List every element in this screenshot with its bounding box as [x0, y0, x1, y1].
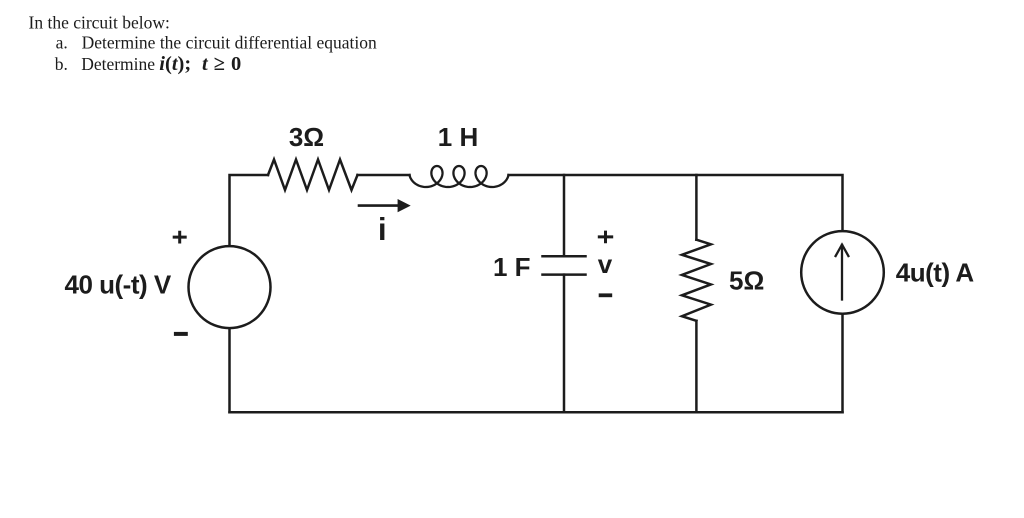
svg-text:a.Determine the circuit differ: a.Determine the circuit differential equ…: [56, 33, 377, 53]
capacitor branch top wire: [563, 175, 566, 256]
svg-text:i: i: [378, 211, 387, 247]
capacitor branch bottom wire: [563, 275, 566, 413]
svg-text:40 u(-t) V: 40 u(-t) V: [65, 270, 172, 300]
svg-text:b.Determinei(t);t≥0: b.Determinei(t);t≥0: [55, 53, 241, 75]
voltage source V1 circle: [189, 246, 271, 328]
current source arrow head chevron: [836, 245, 849, 256]
5ohm branch top wire: [695, 175, 698, 240]
capacitor C1 bottom plate: [543, 273, 586, 276]
svg-text:1 F: 1 F: [493, 252, 531, 282]
wire inductor to top-right corner and down to current source: [509, 175, 843, 230]
current source I1 circle: [801, 231, 884, 314]
svg-text:4u(t) A: 4u(t) A: [896, 257, 975, 287]
wire voltage source bottom to bottom rail: [228, 329, 231, 412]
svg-text:v: v: [598, 249, 613, 279]
svg-text:1 H: 1 H: [438, 122, 478, 152]
wire current source bottom to bottom rail: [841, 315, 844, 413]
minus sign of capacitor: [601, 293, 611, 297]
current direction arrow head: [398, 199, 411, 212]
plus sign of voltage source: [174, 232, 185, 242]
svg-text:5Ω: 5Ω: [729, 266, 764, 296]
bottom rail wire: [230, 411, 843, 414]
svg-text:3Ω: 3Ω: [289, 122, 324, 152]
current direction arrow shaft: [359, 204, 400, 207]
inductor L1 1H coil: [410, 166, 509, 187]
resistor R1 3ohm zigzag: [268, 160, 358, 191]
wire resistor to inductor: [358, 174, 410, 177]
minus sign of voltage source: [176, 332, 186, 336]
capacitor C1 top plate: [543, 255, 586, 258]
current source arrow shaft: [841, 245, 843, 300]
plus sign of capacitor: [599, 232, 611, 242]
svg-text:In the circuit below:: In the circuit below:: [29, 13, 170, 33]
wire top-left: from voltage source top up and right to resistor: [230, 175, 269, 246]
5ohm branch bottom wire: [695, 321, 698, 412]
resistor R2 5ohm zigzag: [682, 240, 711, 321]
